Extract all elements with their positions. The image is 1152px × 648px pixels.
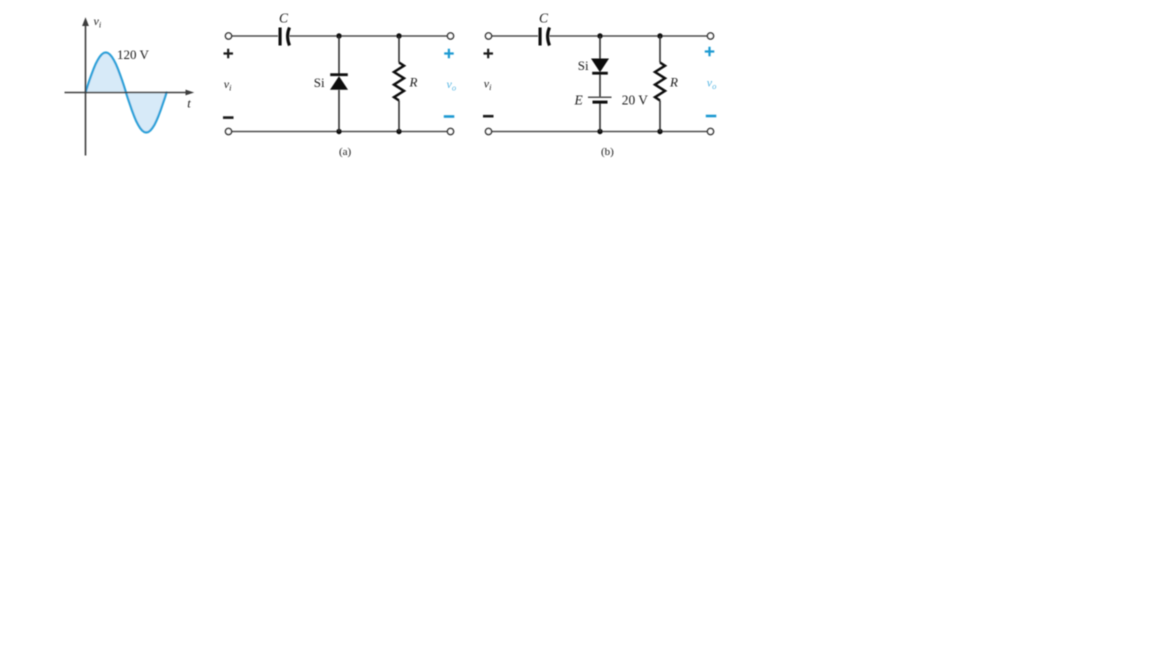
label minus output blue (a) (444, 115, 455, 118)
node junction dots (b) (597, 33, 662, 134)
label v_i axis (94, 14, 102, 30)
node junction dots (a) (336, 33, 401, 134)
svg-text:20 V: 20 V (622, 93, 648, 108)
label t axis (187, 96, 191, 110)
wire resistor branch (b) (659, 36, 661, 132)
svg-text:C: C (279, 10, 289, 25)
circuit (b) output terminal bottom (707, 128, 713, 134)
waveform t-axis (65, 90, 195, 96)
label Si (a) (314, 75, 325, 90)
svg-text:Si: Si (314, 75, 325, 90)
label 120 V (117, 47, 150, 62)
circuit (b) output terminal top (707, 33, 713, 39)
svg-text:R: R (669, 75, 678, 90)
battery E 20V (b) (588, 97, 612, 103)
svg-text:vo: vo (447, 77, 457, 93)
capacitor C (b) (539, 28, 550, 46)
svg-text:120 V: 120 V (117, 47, 150, 62)
wire diode-battery branch (b) (599, 36, 601, 132)
circuit (a) input terminal top (225, 33, 231, 39)
wire resistor branch (a) (398, 36, 400, 132)
svg-text:t: t (187, 96, 191, 110)
label C (a) (279, 10, 289, 25)
label Si (b) (578, 58, 589, 73)
label minus input (b) (483, 115, 494, 118)
svg-text:C: C (539, 10, 549, 25)
circuit (b) input terminal bottom (485, 128, 491, 134)
circuit (a) output terminal top (447, 33, 453, 39)
circuit (a) top wire (232, 35, 448, 37)
label v_o blue (b) (707, 75, 717, 91)
label E (b) (574, 93, 584, 108)
svg-text:(a): (a) (339, 146, 352, 158)
diode D2 Si (b) (591, 59, 609, 75)
circuit (a) output terminal bottom (447, 128, 453, 134)
circuit (b) input terminal top (485, 33, 491, 39)
svg-text:vi: vi (94, 14, 102, 30)
caption (a) (339, 146, 352, 158)
label + output blue (b) (705, 47, 715, 57)
label minus input (a) (223, 116, 234, 119)
svg-text:(b): (b) (601, 146, 614, 158)
wire diode branch (a) (338, 36, 340, 132)
label v_i (a) (224, 77, 232, 93)
resistor R (b) (655, 63, 665, 101)
label v_o blue (a) (447, 77, 457, 93)
svg-text:vi: vi (224, 77, 232, 93)
svg-text:vi: vi (484, 77, 492, 93)
capacitor C (a) (279, 28, 290, 46)
label C (b) (539, 10, 549, 25)
waveform sine 120V input (86, 53, 167, 133)
label + input (a) (224, 49, 234, 59)
label R (b) (669, 75, 678, 90)
svg-text:vo: vo (707, 75, 717, 91)
diode D1 Si (a) (330, 73, 348, 90)
label v_i (b) (484, 77, 492, 93)
label 20 V (b) (622, 93, 648, 108)
circuit (b) bottom wire (492, 131, 708, 133)
waveform v-axis (82, 17, 89, 155)
circuit (a) bottom wire (232, 131, 448, 133)
label + output blue (a) (444, 49, 454, 59)
resistor R (a) (394, 63, 404, 101)
label R (a) (409, 75, 418, 90)
svg-text:E: E (574, 93, 584, 108)
svg-text:R: R (409, 75, 418, 90)
circuit (b) top wire (492, 35, 708, 37)
svg-text:Si: Si (578, 58, 589, 73)
circuit (a) input terminal bottom (225, 128, 231, 134)
label minus output blue (b) (706, 115, 717, 118)
caption (b) (601, 146, 614, 158)
label + input (b) (484, 49, 494, 59)
